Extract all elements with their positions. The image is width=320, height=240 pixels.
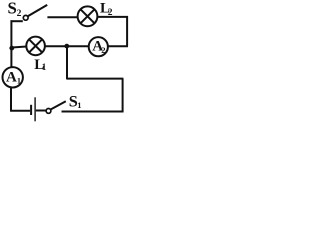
junction node (left vertical, L1 branch) bbox=[9, 46, 14, 51]
svg-text:1: 1 bbox=[77, 100, 81, 110]
ammeter A2 bbox=[89, 37, 108, 56]
wire: middle horizontal return (drop to lower-right vertical) bbox=[67, 78, 124, 80]
wire: bottom left (corner to battery) bbox=[10, 110, 30, 112]
switch S1 lever (open) bbox=[51, 101, 66, 109]
junction node (middle row, drop point) bbox=[64, 44, 69, 49]
wire: top horizontal (lamp L2 to top-right corner) bbox=[97, 16, 128, 18]
wire: lower-right vertical bbox=[122, 79, 124, 113]
svg-text:1: 1 bbox=[42, 62, 47, 72]
battery positive plate (long thin) bbox=[34, 97, 36, 121]
wire: junction drop vertical bbox=[66, 46, 68, 79]
wire: middle row (junction to A2 left lead) bbox=[45, 45, 89, 47]
wire: S2 corner stub bbox=[11, 20, 23, 22]
switch S1 pivot contact bbox=[46, 109, 51, 114]
svg-text:1: 1 bbox=[17, 77, 21, 86]
svg-text:A: A bbox=[6, 69, 17, 85]
label L2 bbox=[100, 1, 113, 18]
wire: left vertical lower (A1 to bottom-left corner) bbox=[10, 87, 12, 111]
wire: left vertical upper (S2 corner to A1 top) bbox=[10, 20, 12, 68]
lamp L2 bbox=[78, 6, 98, 26]
label L1 bbox=[34, 57, 47, 73]
wire: battery to switch S1 bbox=[36, 110, 46, 112]
svg-text:2: 2 bbox=[17, 9, 22, 19]
label S1 bbox=[69, 91, 82, 110]
switch S2 pivot contact bbox=[23, 15, 28, 20]
lamp L1 bbox=[26, 37, 45, 56]
wire: A2 right lead bbox=[108, 45, 128, 47]
wire: middle row left (left vertical to lamp L1) bbox=[12, 47, 27, 48]
wire: upper-right vertical (top-right corner down to A2 row) bbox=[126, 16, 128, 46]
ammeter A1 bbox=[3, 67, 23, 87]
switch S2 lever (open) bbox=[28, 5, 47, 16]
svg-text:2: 2 bbox=[101, 45, 105, 55]
wire: top horizontal (S2 fixed contact to lamp L2) bbox=[47, 16, 77, 18]
wire: bottom right (S1 fixed contact to bottom-right corner) bbox=[62, 111, 124, 113]
battery negative plate (short thick) bbox=[30, 105, 32, 115]
label S2 bbox=[8, 0, 22, 19]
svg-text:S: S bbox=[8, 0, 17, 17]
